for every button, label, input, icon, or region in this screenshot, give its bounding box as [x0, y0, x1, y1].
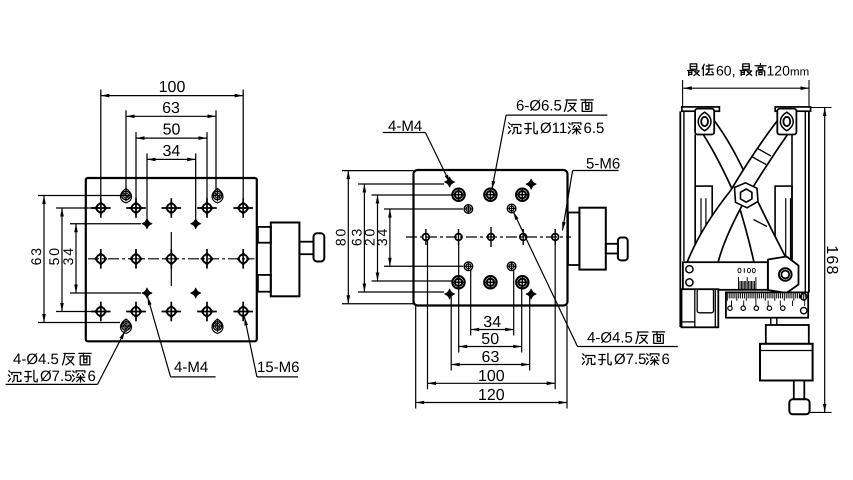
- svg-text:168: 168: [823, 245, 840, 275]
- svg-text:4-Ø4.5: 4-Ø4.5: [13, 351, 59, 368]
- svg-text:60,: 60,: [716, 63, 735, 79]
- svg-text:63: 63: [482, 349, 500, 366]
- svg-text:6: 6: [662, 351, 670, 368]
- svg-text:50: 50: [163, 122, 181, 139]
- svg-text:34: 34: [483, 314, 501, 331]
- svg-text:4-M4: 4-M4: [174, 359, 208, 376]
- svg-text:mm: mm: [790, 67, 809, 79]
- svg-text:63: 63: [162, 100, 180, 117]
- svg-text:34: 34: [374, 227, 390, 246]
- svg-text:80: 80: [332, 227, 348, 246]
- svg-text:50: 50: [481, 331, 499, 348]
- svg-text:6.5: 6.5: [584, 120, 605, 137]
- svg-text:100: 100: [478, 368, 505, 385]
- svg-text:100: 100: [159, 79, 186, 96]
- svg-text:34: 34: [162, 143, 180, 160]
- svg-text:120: 120: [767, 63, 791, 79]
- svg-text:Ø11: Ø11: [540, 120, 567, 137]
- svg-text:6: 6: [88, 368, 96, 385]
- svg-text:63: 63: [28, 246, 44, 265]
- svg-text:34: 34: [60, 246, 76, 265]
- svg-text:15-M6: 15-M6: [257, 359, 300, 376]
- svg-text:Ø7.5: Ø7.5: [614, 351, 647, 368]
- svg-text:Ø7.5: Ø7.5: [40, 368, 73, 385]
- svg-text:120: 120: [478, 387, 505, 404]
- svg-text:6-Ø6.5: 6-Ø6.5: [516, 98, 562, 115]
- svg-text:4-Ø4.5: 4-Ø4.5: [587, 330, 633, 347]
